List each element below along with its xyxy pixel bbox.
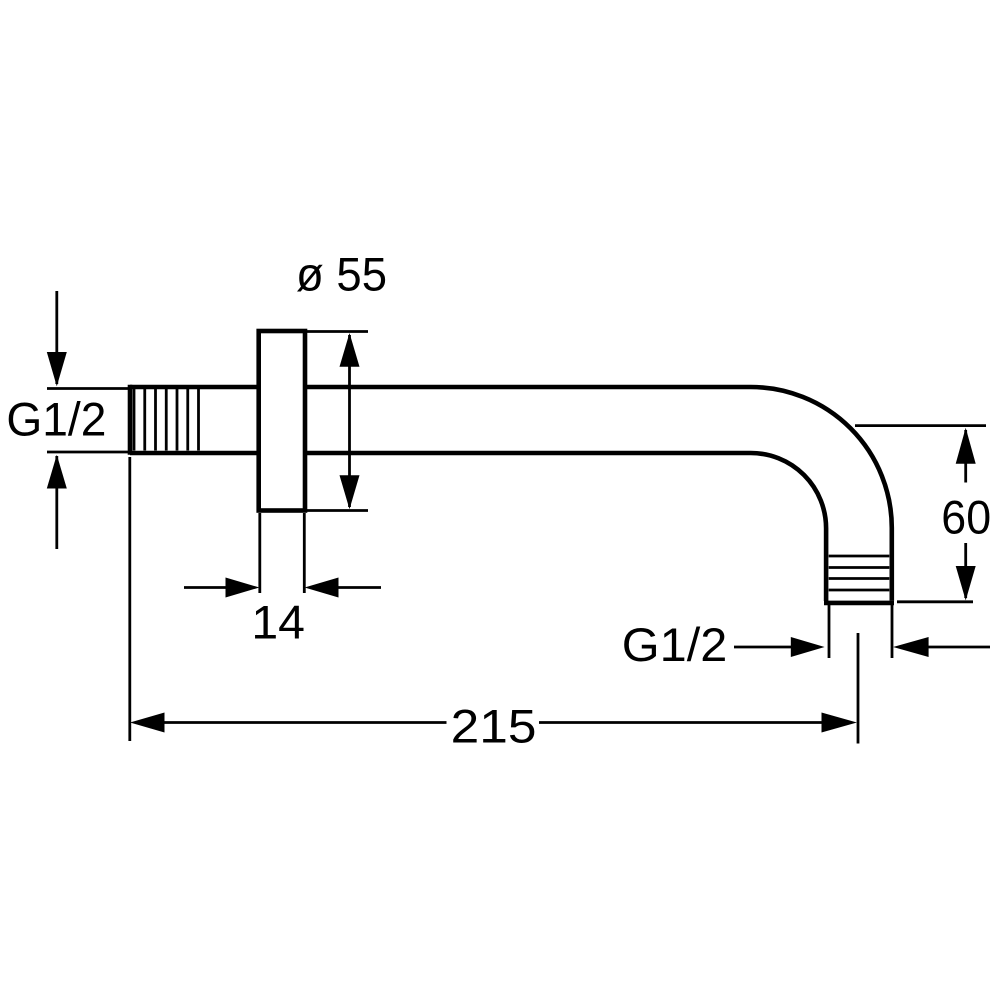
dimension: G1/2 (left, wall thread) [47, 291, 128, 549]
label: G1/2 (outlet thread) [734, 605, 990, 658]
svg-text:G1/2: G1/2 [6, 394, 106, 447]
wall-end thread hatching [134, 389, 199, 451]
wall-end cap (left end of arm) [128, 385, 133, 455]
wall flange [259, 331, 305, 511]
dimension: 215 (arm length) [130, 457, 858, 744]
dimension: ø 55 [307, 332, 368, 511]
dimension: 14 (flange thickness) [184, 513, 381, 593]
svg-text:14: 14 [251, 597, 305, 650]
svg-text:G1/2: G1/2 [622, 619, 728, 672]
dimension: 60 (drop height) [855, 426, 986, 602]
pipe inner edge (bottom + bend + left side of vertical run) [130, 453, 826, 601]
svg-text:ø 55: ø 55 [296, 249, 387, 302]
outlet end cap (bottom of vertical run) [824, 601, 894, 606]
svg-text:60: 60 [941, 491, 991, 544]
svg-text:215: 215 [451, 701, 537, 754]
outlet thread hatching [829, 556, 890, 590]
pipe outer edge (top + bend + right side) [130, 387, 892, 601]
